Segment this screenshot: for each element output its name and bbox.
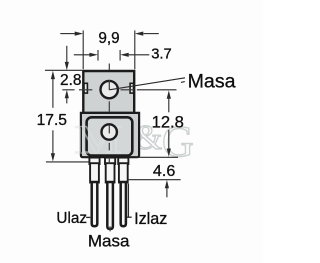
Izlaz connector [127,184,132,218]
dimension 17.5 [46,71,89,162]
left notch [84,83,87,93]
leg 1 (Ulaz) [89,158,99,227]
dimension 4.6 [128,180,181,198]
mounting hole [101,81,118,98]
body front panel (rounded) [87,117,133,155]
dimension 9,9 [60,30,159,69]
svg-text:Ulaz: Ulaz [56,210,87,227]
svg-text:17.5: 17.5 [37,112,68,129]
dimension 3.7 (hole) [74,50,150,61]
leg 3 (Izlaz) [118,158,128,227]
inner circle [102,124,117,139]
tab top extension line [45,69,82,71]
svg-text:Izlaz: Izlaz [134,210,167,228]
body [81,113,139,157]
leg 2 (Masa) [105,158,115,229]
vertical centerline [108,64,111,232]
Ulaz dash [86,216,90,218]
svg-text:3.7: 3.7 [151,46,172,62]
tab (metal flange with hole) [83,71,134,113]
svg-text:9,9: 9,9 [98,30,119,47]
svg-text:12.8: 12.8 [152,113,184,132]
svg-text:2.8: 2.8 [60,72,82,89]
svg-text:M: M [74,118,122,162]
extension line hole center right [137,89,177,91]
dimension 12.8 [136,90,178,157]
watermark [135,117,194,166]
Masa leader line [109,78,185,90]
dimension 2.8 [65,46,69,104]
right notch [130,83,133,93]
svg-text:Masa: Masa [88,231,130,250]
horizontal centerline [62,89,134,91]
svg-text:Masa: Masa [188,70,236,92]
svg-text:4.6: 4.6 [153,162,175,180]
